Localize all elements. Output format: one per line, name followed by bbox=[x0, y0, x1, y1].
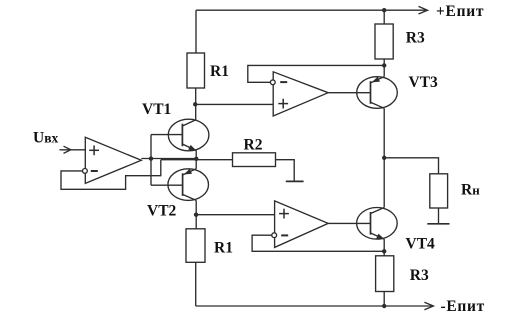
svg-text:Uвх: Uвх bbox=[33, 130, 58, 147]
+Epit rail arrowhead bbox=[419, 6, 428, 14]
-Epit power rail bbox=[196, 305, 432, 307]
U3 minus symbol bbox=[281, 234, 288, 236]
svg-text:R1: R1 bbox=[214, 240, 233, 257]
U3 plus symbol bbox=[279, 209, 289, 219]
transistor VT2 bbox=[151, 169, 209, 201]
ground (R2) bbox=[286, 180, 304, 182]
node R3/VT3/feedback bbox=[382, 63, 386, 67]
+Epit power rail bbox=[196, 9, 426, 11]
wire VT3 collector to output node bbox=[383, 108, 385, 158]
wire VT2 collector down bbox=[195, 200, 197, 228]
svg-text:R3: R3 bbox=[406, 30, 425, 47]
wire feedback vertical bbox=[61, 160, 161, 190]
wire bases tie bbox=[150, 135, 152, 186]
U1 plus symbol bbox=[89, 145, 99, 155]
op-amp U2 (top driver) bbox=[273, 72, 328, 116]
U3 output wire bbox=[328, 222, 370, 224]
wire R3 to VT3 emitter bbox=[383, 59, 385, 77]
U1 inverting input bubble bbox=[83, 169, 88, 174]
svg-text:Rн: Rн bbox=[461, 182, 480, 199]
wire VT4 collector to output node bbox=[383, 158, 385, 208]
svg-text:VT1: VT1 bbox=[142, 101, 171, 118]
U1 minus symbol bbox=[91, 170, 98, 172]
svg-text:R1: R1 bbox=[210, 63, 229, 80]
node rail/R3 bottom bbox=[382, 304, 386, 308]
wire VT4 emitter to R3 bbox=[383, 239, 385, 256]
wire R2 to ground bbox=[276, 160, 295, 182]
U1 output wire bbox=[141, 158, 196, 160]
node rail/R3 bbox=[382, 8, 386, 12]
node output/bases bbox=[149, 156, 153, 160]
U3 feedback wire bbox=[252, 235, 384, 251]
wire R1 bottom to rail bbox=[195, 262, 197, 306]
-Epit rail arrowhead bbox=[424, 302, 433, 310]
wire node to op-amp plus input bbox=[195, 103, 273, 105]
wire VT1 emitter to junction bbox=[195, 151, 197, 169]
transistor VT1 bbox=[151, 119, 209, 151]
U2 minus symbol bbox=[280, 81, 287, 83]
svg-text:VT2: VT2 bbox=[147, 203, 177, 220]
U2 plus symbol bbox=[278, 99, 288, 109]
ground (Rn) bbox=[427, 223, 449, 225]
op-amp U1 (input follower) bbox=[85, 137, 141, 183]
resistor Rn bbox=[430, 174, 448, 208]
svg-text:+Епит: +Епит bbox=[436, 3, 484, 20]
transistor VT3 bbox=[357, 77, 398, 109]
svg-text:R3: R3 bbox=[410, 267, 429, 284]
wire rail to R3 top bbox=[383, 10, 385, 24]
resistor R3 (bottom) bbox=[376, 256, 394, 292]
svg-text:VT3: VT3 bbox=[409, 74, 439, 91]
node output bbox=[382, 156, 386, 160]
wire top rail to R1 bbox=[195, 10, 197, 53]
wire node to bottom op-amp plus input bbox=[196, 214, 275, 216]
resistor R2 bbox=[233, 153, 276, 167]
node VT4/R3/feedback bbox=[382, 249, 386, 253]
transistor VT4 bbox=[357, 208, 398, 240]
op-amp U3 (bottom driver) bbox=[275, 201, 329, 248]
node VT2/R1/op-amp bbox=[194, 213, 198, 217]
wire emitters to R2 bbox=[161, 159, 233, 161]
wire Rn to ground bbox=[438, 208, 440, 224]
svg-text:R2: R2 bbox=[244, 137, 263, 154]
svg-text:VT4: VT4 bbox=[406, 236, 436, 253]
resistor R1 (bottom) bbox=[186, 229, 205, 262]
wire R1 bottom to VT1 collector bbox=[195, 88, 197, 120]
resistor R3 (top) bbox=[375, 24, 393, 59]
U3 inverting input bubble bbox=[272, 233, 277, 238]
node R1/VT1/op-amp bbox=[193, 102, 197, 106]
node emitters junction bbox=[194, 157, 198, 161]
U2 output wire bbox=[328, 92, 370, 94]
wire output to Rn bbox=[384, 158, 438, 174]
U2 feedback wire bbox=[248, 65, 384, 82]
svg-text:-Епит: -Епит bbox=[441, 298, 485, 315]
U2 inverting input bubble bbox=[270, 80, 275, 85]
input wire Uvx bbox=[60, 149, 86, 151]
resistor R1 (top) bbox=[187, 53, 205, 88]
input arrowhead bbox=[64, 146, 71, 153]
wire R3 to bottom rail bbox=[383, 292, 385, 307]
